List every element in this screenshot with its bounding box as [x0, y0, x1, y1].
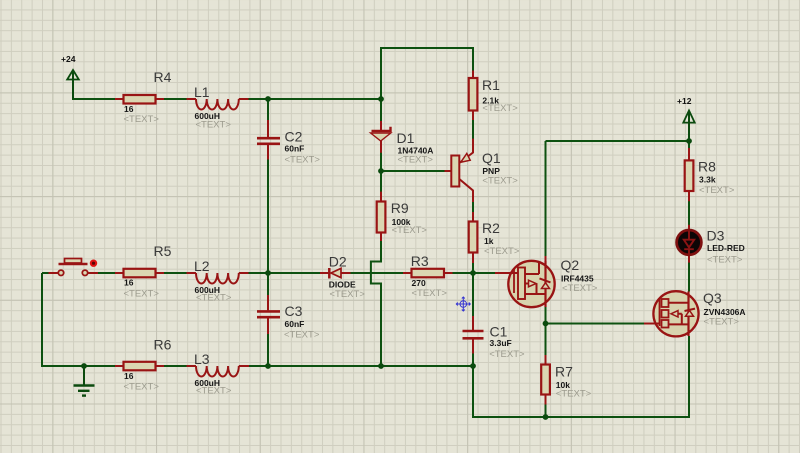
svg-text:270: 270: [412, 278, 426, 288]
power symbol +24: [61, 54, 79, 99]
junction: mid rail / C2-C3 column: [265, 270, 271, 276]
svg-text:<TEXT>: <TEXT>: [562, 283, 598, 294]
junction: top rail / C2 column: [265, 96, 271, 102]
resistor R5: [115, 243, 172, 300]
svg-text:Q2: Q2: [561, 257, 580, 273]
transistor Q1 (PNP): [445, 139, 519, 202]
resistor R6: [115, 337, 172, 393]
wire: D1 anode column upper: [380, 99, 382, 130]
svg-text:L2: L2: [194, 258, 210, 274]
svg-text:R2: R2: [482, 220, 500, 236]
junction: low rail / R9 branch: [378, 363, 384, 369]
junction: low rail / C3: [265, 363, 271, 369]
svg-text:<TEXT>: <TEXT>: [196, 385, 232, 396]
ground symbol: [74, 366, 95, 396]
LED D3 (LED-RED): [677, 225, 745, 266]
diode D2: [320, 253, 365, 300]
wire: L2 to D2: [249, 272, 331, 274]
svg-text:PNP: PNP: [482, 166, 500, 176]
wire: +24 feed to top rail and top rail to L1: [73, 80, 187, 100]
svg-text:R6: R6: [154, 337, 172, 353]
wire: C2 to mid rail: [267, 145, 269, 273]
wire: switch to L2: [88, 272, 187, 274]
svg-text:16: 16: [124, 371, 134, 381]
wire: low rail L3 to bottom corner and bottom rail: [249, 336, 689, 417]
svg-text:IRF4435: IRF4435: [561, 274, 594, 284]
svg-text:3.3k: 3.3k: [699, 175, 716, 185]
svg-text:<TEXT>: <TEXT>: [124, 289, 160, 300]
svg-text:D1: D1: [397, 130, 415, 146]
svg-text:R8: R8: [698, 158, 716, 174]
svg-text:+24: +24: [61, 54, 76, 64]
capacitor C3: [257, 295, 320, 341]
wire: R7 to bottom rail: [545, 395, 547, 418]
capacitor C1: [463, 316, 526, 360]
svg-text:<TEXT>: <TEXT>: [556, 389, 592, 400]
resistor R3: [403, 253, 453, 299]
inductor L2: [187, 258, 249, 303]
svg-text:C1: C1: [490, 324, 508, 340]
svg-text:1k: 1k: [484, 236, 494, 246]
svg-text:LED-RED: LED-RED: [707, 243, 745, 253]
resistor R7: [541, 355, 591, 405]
wire: C2 column upper: [267, 99, 269, 137]
wire: +12 symbol to R8: [688, 123, 690, 161]
junction: Q2 source / Q3 gate: [543, 321, 549, 327]
wire: R3 to Q2 gate: [444, 272, 509, 274]
wire: Q2 drain column: [545, 141, 547, 261]
junction: +12 rail / R8 column: [686, 138, 692, 144]
svg-text:<TEXT>: <TEXT>: [704, 317, 740, 328]
capacitor C2: [257, 120, 320, 165]
junction: low rail / ground: [81, 363, 87, 369]
junction: node at D1 cathode / R9 / Q1 base: [378, 168, 384, 174]
svg-text:<TEXT>: <TEXT>: [482, 176, 518, 187]
svg-text:Q1: Q1: [482, 150, 501, 166]
svg-text:60nF: 60nF: [285, 144, 305, 154]
inductor L1: [187, 84, 249, 131]
junction: mid rail / R2-C1 column: [470, 270, 476, 276]
origin marker (blue crosshair): [456, 297, 470, 311]
svg-text:<TEXT>: <TEXT>: [124, 114, 160, 125]
wire: C3 column upper: [267, 273, 269, 310]
wire: switch loop left vertical: [42, 273, 187, 366]
wire: +12 rail: [546, 140, 690, 142]
junction: bottom rail / R7: [543, 414, 549, 420]
resistor R9: [377, 192, 428, 241]
svg-text:R3: R3: [411, 253, 429, 269]
svg-text:<TEXT>: <TEXT>: [699, 185, 735, 196]
wire: top rail from L1 to D1 column: [249, 98, 382, 100]
resistor R1: [469, 71, 519, 121]
resistor R8: [685, 148, 735, 201]
svg-text:R5: R5: [154, 243, 172, 259]
wire: Q1 collector to R2: [472, 191, 474, 222]
wire: R1 to Q1 emitter: [472, 111, 474, 153]
svg-text:<TEXT>: <TEXT>: [196, 292, 232, 303]
svg-text:C3: C3: [285, 303, 303, 319]
svg-text:<TEXT>: <TEXT>: [196, 120, 232, 131]
wire: D3 to Q3 drain: [688, 255, 690, 292]
wire: Q2 source junction to Q3 gate: [546, 323, 645, 325]
svg-text:<TEXT>: <TEXT>: [284, 330, 320, 341]
svg-text:3.3uF: 3.3uF: [490, 338, 512, 348]
junction: top rail / D1 column: [378, 96, 384, 102]
svg-text:<TEXT>: <TEXT>: [392, 225, 428, 236]
wire: D2 to R3: [341, 272, 412, 274]
svg-text:60nF: 60nF: [285, 319, 305, 329]
inductor L3: [187, 351, 250, 396]
svg-text:<TEXT>: <TEXT>: [285, 154, 321, 165]
wire: R8 to D3: [688, 191, 690, 230]
wire: base node through R9 and jog to low rail: [371, 171, 381, 366]
power symbol +12: [677, 96, 695, 141]
svg-text:16: 16: [124, 278, 134, 288]
svg-text:16: 16: [124, 104, 134, 114]
wire: C1 bottom plate to low rail: [472, 339, 474, 367]
mosfet Q2 (IRF4435): [495, 256, 598, 307]
wire: Q2 source to R7: [545, 307, 547, 365]
wire: C3 to low rail: [267, 318, 269, 366]
svg-text:C2: C2: [285, 129, 303, 145]
svg-text:Q3: Q3: [703, 290, 722, 306]
svg-text:D3: D3: [707, 228, 725, 244]
resistor R4: [115, 69, 172, 125]
svg-text:<TEXT>: <TEXT>: [489, 349, 525, 360]
junction: low rail / C1: [470, 363, 476, 369]
wire: bypass from D1 column top to R1: [381, 48, 473, 99]
resistor R2: [469, 212, 520, 263]
svg-text:<TEXT>: <TEXT>: [484, 246, 520, 257]
switch (pushbutton): [49, 259, 99, 276]
svg-text:<TEXT>: <TEXT>: [412, 288, 448, 299]
svg-text:R1: R1: [482, 77, 500, 93]
svg-text:<TEXT>: <TEXT>: [707, 255, 743, 266]
svg-text:L1: L1: [194, 84, 210, 100]
svg-text:<TEXT>: <TEXT>: [482, 103, 518, 114]
svg-text:R9: R9: [391, 200, 409, 216]
svg-text:D2: D2: [329, 253, 347, 269]
svg-text:<TEXT>: <TEXT>: [398, 155, 434, 166]
svg-text:+12: +12: [677, 96, 692, 106]
svg-text:DIODE: DIODE: [329, 279, 356, 289]
wire: R2 to mid junction to C1 top plate: [472, 253, 474, 331]
wire: D1 to base node: [380, 140, 382, 171]
wire: mid rail left of switch: [42, 272, 58, 274]
mosfet Q3 (ZVN4306A): [644, 290, 746, 336]
wire: base node to Q1 base: [381, 170, 452, 172]
svg-text:R4: R4: [154, 69, 172, 85]
svg-text:<TEXT>: <TEXT>: [124, 382, 160, 393]
svg-text:L3: L3: [194, 351, 210, 367]
svg-text:<TEXT>: <TEXT>: [330, 289, 366, 300]
svg-text:R7: R7: [555, 364, 573, 380]
zener diode D1: [371, 121, 434, 166]
